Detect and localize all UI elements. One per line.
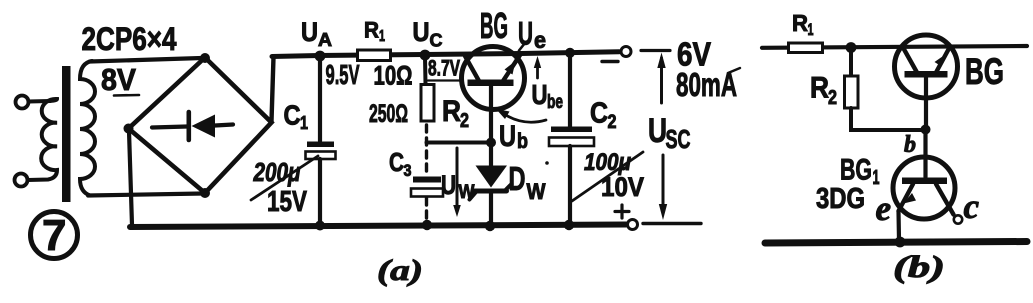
bridge diode cathode-side line	[215, 125, 233, 126]
node output top	[565, 48, 575, 58]
svg-text:e: e	[534, 27, 546, 53]
dashed wire R2 to C3	[425, 125, 428, 175]
bridge diode triangle	[192, 115, 216, 138]
svg-text:U: U	[301, 17, 318, 47]
arrow U_be	[536, 62, 539, 78]
label 8V underline	[114, 94, 139, 97]
output terminal minus	[621, 47, 631, 57]
BG base bar	[468, 80, 514, 87]
BG emitter arrowhead	[505, 61, 516, 75]
wire R2 bottom to node b	[851, 108, 922, 130]
resistor R1	[358, 50, 391, 61]
transformer T secondary winding	[80, 61, 95, 196]
wire node b to BG1 base	[923, 131, 927, 177]
svg-text:C: C	[284, 100, 301, 131]
svg-text:A: A	[318, 30, 332, 50]
zener DW top lead	[489, 145, 493, 166]
svg-text:2: 2	[608, 112, 617, 133]
svg-text:3: 3	[404, 161, 412, 180]
svg-text:U: U	[648, 112, 667, 150]
label minus	[602, 60, 618, 63]
zener DW bar left tail	[470, 192, 477, 200]
node R1-R2 junction	[846, 42, 857, 53]
label plus	[615, 205, 629, 218]
slash C2 values	[572, 152, 643, 201]
svg-text:R: R	[792, 10, 808, 36]
zener DW cathode bar	[475, 189, 507, 194]
ground bus of figure b	[765, 242, 1027, 244]
svg-text:1: 1	[808, 20, 814, 39]
circled 7	[31, 212, 78, 259]
svg-text:1: 1	[300, 113, 308, 133]
svg-text:e: e	[876, 189, 892, 228]
node emitter ground b	[895, 237, 906, 248]
transformer T primary winding	[28, 99, 57, 180]
BG b emitter diagonal	[936, 48, 950, 73]
svg-text:250Ω: 250Ω	[369, 100, 408, 128]
BG1 emitter lead down	[896, 211, 901, 240]
node C3 ground	[422, 220, 432, 230]
wire node to R2	[849, 50, 853, 76]
zener DW bar right tail	[506, 184, 512, 190]
BG base lead	[489, 86, 493, 140]
svg-text:be: be	[547, 92, 563, 113]
svg-text:15V: 15V	[267, 186, 308, 218]
svg-text:U: U	[413, 17, 430, 47]
svg-text:b: b	[517, 130, 528, 153]
svg-text:9.5V: 9.5V	[326, 59, 360, 90]
svg-text:BG: BG	[480, 5, 508, 46]
wire left vertex down to ground bus	[129, 131, 132, 225]
svg-text:1: 1	[379, 28, 385, 45]
capacitor C2 top plate	[551, 127, 592, 133]
node bridge top vertex	[200, 53, 210, 63]
BG1 collector diagonal	[936, 184, 954, 215]
svg-text:BG: BG	[840, 154, 872, 187]
svg-text:8V: 8V	[101, 62, 136, 97]
arrow U_W	[456, 148, 459, 211]
svg-text:2: 2	[460, 110, 469, 132]
BG b emitter arrowhead	[935, 54, 947, 67]
node UA	[315, 51, 326, 62]
capacitor C2 top lead	[568, 54, 572, 127]
USC bracket bottom arrow	[662, 155, 665, 207]
USC bracket bottom serif	[643, 222, 701, 225]
svg-text:R: R	[442, 95, 461, 128]
transistor BG b circle	[895, 35, 958, 98]
node UC	[420, 50, 431, 61]
DW tick mark	[545, 161, 549, 165]
BG b collector diagonal	[903, 48, 917, 73]
svg-text:U: U	[532, 79, 548, 110]
zener DW bottom lead	[489, 193, 493, 223]
wire bridge right vertex riser	[272, 57, 274, 121]
svg-text:BG: BG	[965, 51, 1004, 92]
BG emitter diagonal	[503, 54, 521, 82]
node bridge bottom vertex	[200, 188, 210, 198]
svg-text:W: W	[527, 179, 546, 204]
transformer T primary terminal (bottom)	[15, 174, 28, 187]
transformer T primary terminal (top)	[16, 96, 29, 109]
BG b base lead	[924, 77, 928, 127]
node C1 ground	[315, 221, 325, 231]
svg-text:U: U	[441, 170, 456, 200]
svg-text:3DG: 3DG	[816, 183, 865, 215]
transistor BG1 circle	[893, 157, 955, 219]
BG1 base bar	[902, 178, 947, 185]
BG collector diagonal	[465, 56, 479, 81]
svg-text:D: D	[509, 160, 526, 197]
BG1 emitter diagonal	[899, 184, 914, 211]
capacitor C1 top plate	[307, 142, 334, 148]
wire secondary bottom to bridge bottom vertex	[88, 194, 203, 196]
capacitor C3 top plate	[413, 177, 441, 183]
wire top rail	[272, 52, 619, 57]
capacitor C1 bottom plate	[306, 152, 336, 160]
svg-text:C: C	[389, 147, 404, 177]
wire R2 bottom to base node	[427, 141, 490, 145]
wire secondary top to bridge	[90, 58, 202, 62]
capacitor C2 bottom lead	[568, 146, 572, 224]
svg-text:C: C	[590, 98, 608, 130]
output terminal plus	[628, 220, 638, 230]
resistor R2 b	[845, 76, 859, 108]
wire primary top lead	[29, 99, 51, 104]
svg-text:R: R	[364, 18, 379, 43]
svg-text:8.7V: 8.7V	[428, 56, 460, 81]
wire UC down to R2	[423, 57, 428, 84]
svg-text:(a): (a)	[377, 254, 423, 287]
capacitor C2 bottom plate	[549, 138, 594, 147]
svg-text:80mA: 80mA	[676, 66, 737, 103]
svg-text:2CP6×4: 2CP6×4	[82, 21, 177, 57]
resistor R2	[421, 85, 434, 122]
USC bracket top serif	[641, 49, 670, 52]
bridge rectifier diamond	[129, 58, 272, 194]
svg-text:c: c	[964, 187, 980, 226]
svg-text:(b): (b)	[893, 249, 945, 284]
capacitor C3 bottom plate	[411, 189, 443, 197]
svg-text:SC: SC	[666, 124, 691, 154]
BG1 emitter arrowhead	[904, 193, 917, 204]
svg-text:7: 7	[42, 211, 66, 260]
ground bus of figure a	[130, 225, 626, 228]
svg-text:U: U	[518, 16, 533, 52]
svg-text:C: C	[430, 31, 443, 51]
slash C1 values	[251, 156, 318, 200]
svg-text:2: 2	[828, 87, 837, 109]
dashed wire C3 to ground	[425, 198, 428, 221]
bridge diode cathode bar	[187, 112, 192, 140]
underline 8.7V	[428, 79, 461, 81]
capacitor C1 top lead	[318, 58, 322, 141]
BG1 collector open terminal c	[954, 215, 962, 223]
transistor BG circle	[462, 47, 525, 110]
svg-text:b: b	[904, 132, 916, 158]
resistor R1 b	[789, 43, 823, 53]
node b	[921, 125, 931, 135]
USC bracket top arrow	[660, 58, 663, 103]
tick over A	[728, 68, 740, 73]
capacitor C1 bottom lead	[318, 159, 322, 225]
svg-text:W: W	[459, 182, 475, 203]
svg-text:1: 1	[873, 167, 880, 189]
BG b base bar	[905, 71, 948, 78]
node base junction	[486, 138, 496, 148]
svg-text:U: U	[499, 120, 516, 153]
node bridge left vertex	[124, 124, 134, 134]
node zener ground	[485, 221, 495, 231]
node C2 ground	[564, 220, 574, 230]
bridge diode anode line	[152, 127, 187, 128]
curved arrow U_b	[501, 112, 546, 122]
transformer core	[62, 66, 71, 202]
wire top rail b	[762, 46, 1027, 48]
svg-text:10Ω: 10Ω	[374, 61, 413, 91]
pointer to emitter node	[519, 43, 525, 51]
zener DW triangle	[476, 166, 508, 188]
svg-text:R: R	[810, 72, 829, 105]
